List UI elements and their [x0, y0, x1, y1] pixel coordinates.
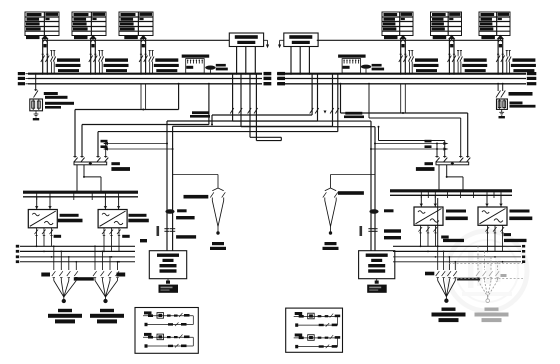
stub ticks under left DC bus — [37, 192, 119, 200]
wire left ATS cross feed — [82, 83, 210, 157]
caption for left spare — [210, 242, 226, 250]
caption for right spare — [323, 242, 339, 250]
bus name labels right edge — [527, 72, 537, 85]
wire tie line right section y40 — [317, 39, 503, 41]
label 1M1-1M3 — [58, 214, 83, 223]
label bar 4FU right — [504, 239, 527, 242]
wire crossover right group line 1 — [211, 74, 312, 126]
legend circuit row 1 of right — [294, 312, 341, 327]
wire T4 drop below bus — [401, 84, 406, 114]
junction dots TR4 on bus — [400, 73, 402, 75]
load feeder group 1CB — [52, 245, 78, 302]
arrow on right crossover group — [324, 111, 327, 114]
wire interconnect rail 1 left — [103, 142, 168, 145]
junction dots TR2 on bus — [90, 73, 92, 75]
changeover controller box PBE-T1 left — [229, 33, 263, 47]
tie bar between left funnels — [74, 277, 94, 280]
decorative watermark (not labelled further) — [447, 231, 527, 311]
transformer TR4 bowtie symbol — [399, 35, 406, 43]
label 1M3 — [54, 235, 62, 238]
label lines beside left box — [45, 102, 74, 109]
wire left ATS own feed — [75, 83, 180, 157]
disconnector ticks beside TR6 — [506, 51, 511, 74]
legend box left — [135, 308, 198, 354]
wire TR5 feeder drop (double) — [449, 39, 454, 74]
UPS box UPS2 — [359, 251, 395, 279]
arrester 1AB2 blob and label — [361, 64, 384, 74]
bus line 3 left section — [28, 83, 262, 85]
wire crossover left group line 4 to center bridge — [256, 74, 281, 141]
distribution box 3PD (right) — [497, 99, 508, 109]
breaker TR3 switch slashes — [139, 54, 147, 62]
label 3FU1 right — [509, 92, 533, 96]
wire crossover right group line 4 to left ATS — [98, 74, 338, 157]
label lines beside right box — [510, 102, 536, 108]
label under table — [384, 36, 398, 39]
breaker slashes on left crossover drops — [230, 108, 257, 114]
tie bar between right funnels — [457, 278, 480, 281]
wire crossover left group line 1 to UPS2 — [233, 74, 371, 251]
label 3DC1 left of center — [190, 111, 210, 117]
bus line 2 left section — [28, 78, 262, 80]
arrester 1AB1 blob and label — [205, 64, 228, 74]
label small left of riser UPS1 — [140, 239, 147, 242]
capacitor symbols UPS1 — [164, 229, 175, 232]
legend circuit row 1 of left — [143, 311, 193, 326]
caption under funnel 1CB — [58, 309, 72, 312]
wire rail drop to left ATS 4th input — [105, 144, 107, 157]
label 3DK group for TR4 — [414, 58, 439, 72]
wire tie line left section y40 — [43, 39, 230, 41]
distribution bus lines left — [16, 245, 135, 263]
distribution box 1PD (left) — [30, 99, 43, 111]
transformer data table T1 — [25, 12, 59, 36]
wire TR1 feeder drop (double) — [43, 39, 48, 74]
disconnector ticks beside TR5 — [457, 51, 462, 74]
rail labels — [101, 140, 432, 148]
load feeder group ghost bay — [476, 246, 499, 302]
label 1WL C1 — [44, 92, 68, 99]
wire interconnect rail 2 left — [103, 148, 174, 151]
wire right ATS own feed — [340, 83, 468, 157]
wire drops from left controller box to bus — [237, 47, 256, 74]
junction dots right distribution bus — [420, 245, 504, 262]
label 3CB — [425, 272, 434, 276]
breaker TR4 switch slashes — [399, 54, 407, 62]
label under table — [124, 36, 138, 39]
label 3DK group for TR5 — [462, 58, 487, 72]
junction dots TR6 on bus — [497, 73, 499, 75]
label under table — [26, 36, 40, 39]
wire interconnect rail 2 right — [370, 148, 448, 151]
label 4M6 — [504, 233, 512, 236]
bus line 2 right section — [277, 78, 526, 80]
label under table — [481, 36, 495, 39]
label under table — [433, 36, 447, 39]
input switches 1ATS left — [73, 157, 108, 163]
changeover controller box PBE-T1 right — [284, 33, 318, 47]
label 1M6 — [122, 235, 130, 238]
bus line 1 left section — [28, 73, 262, 75]
converter 2ZL feeds — [104, 197, 121, 210]
disconnector ticks beside TR3 — [149, 51, 154, 74]
bus DC thick right — [390, 191, 512, 196]
battery pack UPS2 — [367, 279, 387, 293]
transfer mini-bus 1ATS left — [74, 162, 107, 166]
transformer data table T5 — [431, 12, 462, 36]
label 3DK group for TR2 — [104, 58, 129, 72]
legend circuit row 2 of right — [294, 334, 341, 349]
bus DC thick left — [23, 192, 138, 197]
label 3FC3 — [338, 191, 364, 195]
junction dots TR1 on bus — [42, 73, 44, 75]
converter output drops 4M6 — [486, 225, 505, 251]
capacitor symbols UPS2 — [368, 229, 377, 232]
breaker slashes on right crossover drops — [310, 108, 339, 114]
converter 3ZL box — [414, 207, 443, 225]
junction dots TR5 on bus — [448, 73, 450, 75]
junction dots TR3 on bus — [140, 73, 142, 75]
transformer TR3 bowtie symbol — [140, 35, 147, 43]
transformer data table T3 — [119, 12, 153, 36]
breaker TR2 switch slashes — [89, 54, 97, 62]
wire long drop to right load bus — [437, 198, 439, 247]
wire right ATS inner cross feed — [368, 83, 461, 157]
surge arrester bank 3MP2 — [338, 55, 366, 74]
label 3DC2 right of center — [344, 112, 364, 118]
converter 4ZL box — [478, 207, 507, 225]
junction dots left distribution bus — [36, 245, 120, 262]
input switches 2ATS right — [435, 157, 470, 163]
stub ticks under right DC bus — [421, 191, 501, 198]
spare feeder funnel left spare — [173, 175, 226, 235]
breaker TR6 switch slashes — [496, 54, 504, 62]
label 1M4-1M6 — [128, 214, 149, 223]
wire T3 drop below bus — [141, 84, 146, 111]
feeder drop to left distribution box — [34, 73, 39, 98]
converter 1ZL feeds — [35, 197, 52, 210]
disconnector ticks beside TR1 — [50, 51, 55, 74]
breaker TR1 switch slashes — [41, 54, 49, 62]
labels UPS2 — [360, 209, 402, 239]
wire TR2 feeder drop (double) — [91, 39, 96, 74]
label 1CB — [41, 273, 50, 277]
wire TR6 feeder drop (double) — [498, 39, 503, 74]
ground symbol under right box — [499, 109, 505, 118]
wire rail drop to right ATS input1 — [436, 144, 438, 157]
converter 3ZL feeds — [420, 195, 437, 207]
caption under ghost funnel — [485, 308, 499, 311]
bus tie gap labels center — [264, 72, 286, 86]
label bar 4FU left — [443, 239, 464, 242]
arrow symbols between controller boxes — [264, 40, 284, 48]
outputs of 1ATS left to DC bus — [76, 165, 102, 193]
label 3DK group for TR6 — [511, 58, 536, 72]
disconnector ticks beside TR2 — [98, 51, 103, 74]
spare feeder funnel right spare — [323, 175, 375, 235]
label 4M1-4M3 — [446, 210, 468, 221]
label 2CB — [117, 273, 126, 277]
label under table — [74, 36, 88, 39]
label 3DK group for TR3 — [154, 58, 179, 72]
label 1FC1 beside left ATS — [111, 162, 130, 171]
wire fan feed to right ATS input2 — [378, 126, 445, 157]
breaker TR5 switch slashes — [448, 54, 456, 62]
bus line 3 right section — [277, 83, 526, 85]
transformer data table T4 — [382, 12, 413, 36]
caption under funnel 2CB — [100, 309, 114, 312]
wire crossover right group line 2 to UPS1 — [167, 74, 318, 251]
transformer TR6 bowtie symbol — [497, 35, 504, 43]
distribution bus lines right — [393, 245, 525, 263]
wire TR4 feeder drop (double) — [401, 39, 406, 74]
wire interconnect rail 1 right — [374, 142, 448, 145]
battery fuse ellipse UPS1 — [165, 209, 174, 214]
converter output drops 4M3 — [419, 225, 438, 246]
bus line 1 right section — [277, 73, 526, 75]
label 3FU3 — [184, 195, 209, 199]
converter 2ZL box — [98, 210, 127, 228]
feeder drop to right distribution box — [496, 83, 505, 98]
battery fuse ellipse UPS2 — [369, 209, 378, 214]
dashed outline of future bay — [449, 264, 523, 279]
battery pack UPS1 — [159, 279, 179, 293]
caption under funnel 3CB — [442, 308, 456, 311]
wire drops from right controller box to bus — [291, 47, 309, 74]
UPS box UPS1 — [149, 251, 186, 279]
converter 1ZL box — [28, 210, 57, 228]
legend box right — [286, 308, 343, 352]
transformer data table T2 — [72, 12, 106, 36]
converter output drops 1M6 — [102, 228, 121, 252]
bus name labels left edge — [18, 72, 28, 85]
transformer TR5 bowtie symbol — [448, 35, 455, 43]
outputs of 2ATS right to DC bus — [438, 165, 464, 192]
label 3DK group for TR1 — [56, 58, 81, 72]
converter 4ZL feeds — [485, 195, 502, 207]
label 4M3 — [441, 236, 449, 239]
label ghost CB — [501, 274, 507, 277]
ground symbol under left box — [33, 111, 39, 121]
load feeder group 2CB — [93, 245, 119, 302]
wire drops controller boxes onto bus junctions — [236, 73, 311, 75]
label 4M4-4M6 — [509, 210, 532, 221]
label 2FC1 beside right ATS — [416, 162, 435, 171]
surge arrester bank 3MP1 — [182, 55, 210, 74]
legend circuit row 2 of left — [143, 333, 193, 348]
transformer data table T6 — [479, 12, 510, 36]
load feeder group 3CB — [436, 245, 457, 302]
wire crossover left group line 2 to UPS2 — [241, 74, 375, 251]
wire TR3 feeder drop (double) — [141, 39, 146, 74]
wire crossover right group line 3 to UPS1 — [173, 74, 333, 251]
labels UPS1 — [157, 209, 197, 238]
wire crossover left group line 3 to center bridge — [250, 74, 281, 138]
converter output drops 1M3 — [35, 228, 54, 247]
disconnector ticks beside TR4 — [408, 51, 413, 74]
transformer TR2 bowtie symbol — [89, 35, 96, 43]
transformer TR1 bowtie symbol — [41, 35, 48, 43]
transfer mini-bus 2ATS right — [436, 162, 469, 166]
